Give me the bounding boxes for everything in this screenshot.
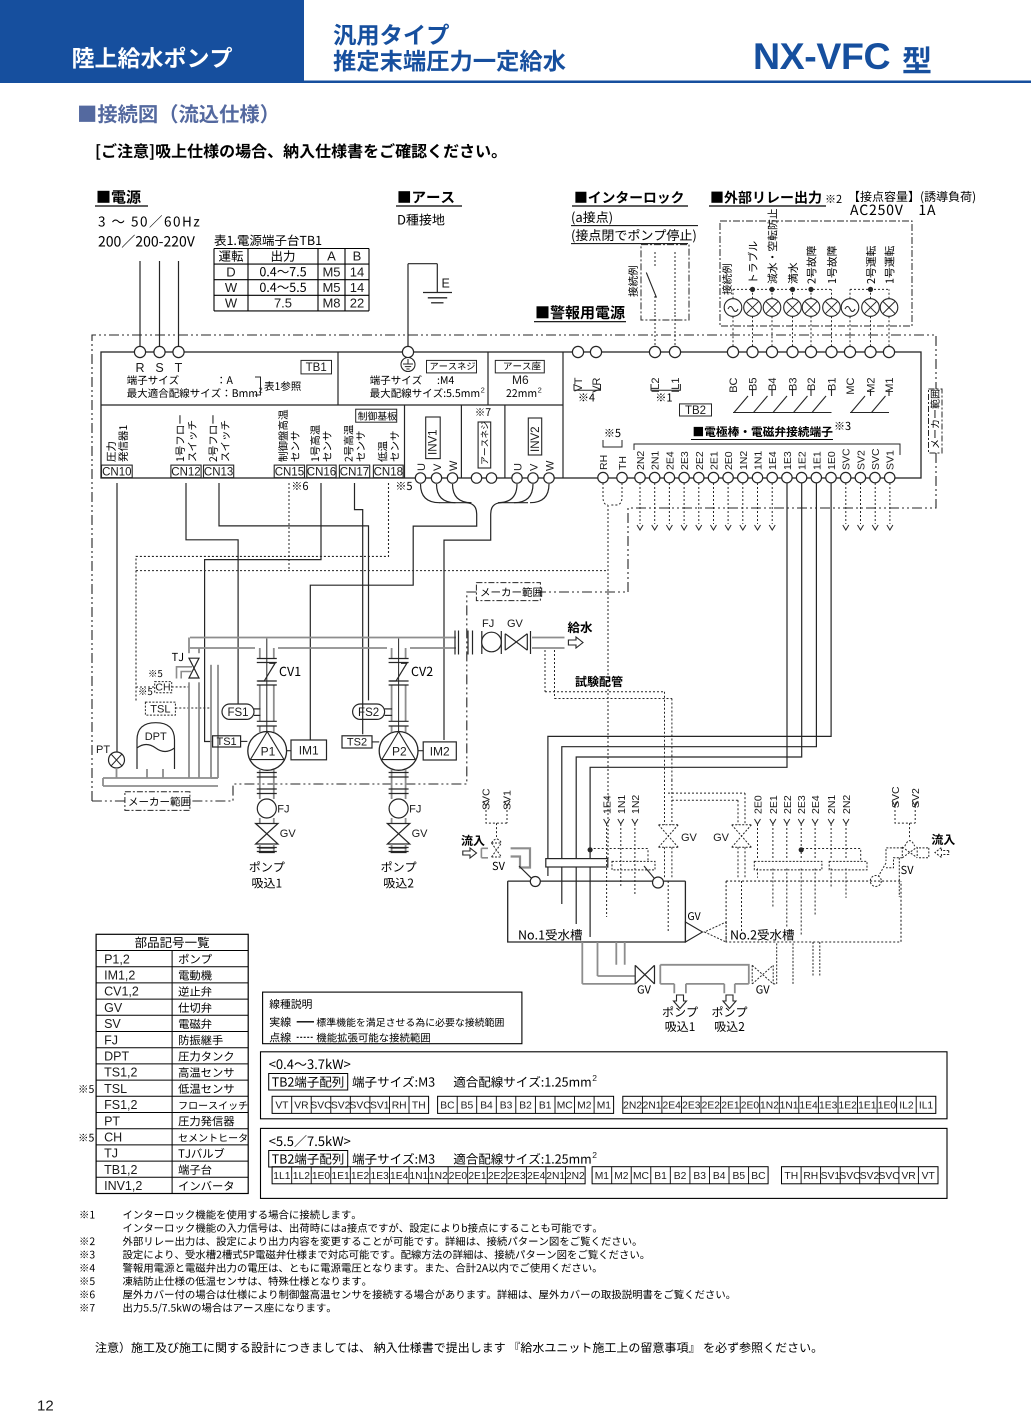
- svg-text:TSL: TSL: [104, 1082, 127, 1096]
- svg-text:M5: M5: [322, 264, 340, 279]
- header band: [0, 0, 304, 82]
- terminal 2E3: [679, 472, 689, 482]
- svg-text:2: 2: [592, 1073, 597, 1083]
- svg-text:NX-VFC: NX-VFC: [753, 35, 891, 77]
- svg-text:CN17: CN17: [340, 466, 369, 478]
- svg-text:T: T: [175, 361, 183, 375]
- svg-text:2N1: 2N1: [643, 1101, 662, 1112]
- svg-text:2E4: 2E4: [810, 795, 822, 814]
- terminal RH: [598, 472, 608, 482]
- flex joint FJ pump1: [257, 799, 276, 818]
- svg-text:1E4: 1E4: [767, 451, 779, 470]
- svg-text:B5: B5: [732, 1171, 745, 1182]
- TB1 tag: [301, 360, 332, 374]
- svg-text:SVC: SVC: [481, 788, 493, 810]
- gate valve GV test2 dotted: [732, 825, 752, 848]
- svg-text:M2: M2: [614, 1171, 629, 1182]
- connector CN13: [204, 465, 234, 478]
- svg-text:DPT: DPT: [104, 1050, 129, 1064]
- svg-text:D: D: [226, 264, 235, 279]
- suction manifold: [660, 965, 749, 984]
- svg-text:B3: B3: [500, 1101, 513, 1112]
- svg-text:M2: M2: [577, 1101, 592, 1112]
- sensor TS1: [213, 736, 241, 747]
- svg-text:CN18: CN18: [374, 466, 403, 478]
- TSL box: [145, 702, 175, 715]
- terminal SV1: [885, 472, 895, 482]
- svg-text:2E0: 2E0: [449, 1171, 468, 1182]
- svg-text:1N2: 1N2: [630, 795, 642, 814]
- wire CN16 to TS1: [205, 483, 321, 742]
- relay bus: [733, 288, 832, 290]
- inverter INV2: [528, 418, 541, 455]
- svg-text:TH: TH: [412, 1101, 426, 1112]
- terminal 1E0: [826, 472, 836, 482]
- relay lamp 2: [744, 299, 762, 317]
- maker-range label mid: [476, 583, 540, 601]
- relay lamp 5: [802, 299, 820, 317]
- svg-text:SVC: SVC: [839, 1171, 861, 1182]
- svg-text:GV: GV: [280, 828, 297, 840]
- svg-text:1E4: 1E4: [390, 1171, 409, 1182]
- svg-text:1E0: 1E0: [878, 1101, 897, 1112]
- label 2号高温センサ: [344, 425, 354, 461]
- TJ drain stub: [177, 667, 193, 679]
- svg-text:TSL: TSL: [150, 703, 170, 715]
- svg-text:B4: B4: [480, 1101, 493, 1112]
- svg-text:1E2: 1E2: [797, 451, 809, 470]
- terminal 2N2: [635, 472, 645, 482]
- footnotes: [80, 1211, 87, 1218]
- terminal 2N1: [650, 472, 660, 482]
- svg-text:1E4: 1E4: [799, 1101, 818, 1112]
- gate valve GV pump2: [387, 824, 409, 845]
- TB2 table 5.5-7.5kW: [261, 1128, 948, 1198]
- inflow arrow tank1: [461, 835, 472, 846]
- maker-range label right: [929, 389, 943, 453]
- control unit box: [101, 352, 921, 478]
- svg-text:DPT: DPT: [145, 731, 167, 743]
- terminal M2: [865, 346, 876, 357]
- relay lamp 4: [784, 299, 802, 317]
- solenoid valve SV tank1: [492, 843, 502, 857]
- svg-text:TJ: TJ: [104, 1147, 118, 1161]
- relay lamp 7: [841, 299, 859, 317]
- terminal 1N2: [738, 472, 748, 482]
- svg-text:M5: M5: [322, 280, 340, 295]
- svg-text:2E4: 2E4: [664, 451, 676, 470]
- relay lamp 8: [862, 299, 880, 317]
- svg-text:INV1: INV1: [428, 429, 440, 455]
- inverter INV1: [426, 417, 441, 459]
- svg-text:TS1,2: TS1,2: [104, 1066, 137, 1080]
- svg-text:TB2: TB2: [685, 405, 706, 417]
- svg-text:SV2: SV2: [860, 1171, 880, 1182]
- alarm power label: [537, 306, 549, 318]
- svg-text:VR: VR: [294, 1101, 308, 1112]
- earth screw glyph: [401, 358, 415, 372]
- svg-text:VT: VT: [922, 1171, 936, 1182]
- svg-text:R: R: [135, 361, 144, 375]
- svg-text:CH: CH: [155, 682, 170, 694]
- wire CN17 to TS2: [355, 483, 363, 734]
- gate valve GV discharge: [505, 634, 527, 651]
- svg-text:1E3: 1E3: [819, 1101, 838, 1112]
- svg-text:SV2: SV2: [855, 450, 867, 470]
- relay lamp 9: [880, 299, 898, 317]
- tank 2 dotted: [726, 881, 901, 942]
- svg-text:FS2: FS2: [358, 707, 379, 719]
- terminal B2: [805, 346, 816, 357]
- label 圧力発信器1: [106, 442, 116, 462]
- svg-text:1N1: 1N1: [409, 1171, 428, 1182]
- svg-text:TH: TH: [617, 456, 629, 470]
- note1 bracket: [651, 384, 680, 390]
- svg-text:2E2: 2E2: [694, 451, 706, 470]
- svg-text:14: 14: [350, 264, 364, 279]
- svg-text:2N1: 2N1: [546, 1171, 565, 1182]
- table TB1: [214, 248, 369, 250]
- svg-text:SVC: SVC: [879, 1171, 901, 1182]
- earth screw column: [476, 408, 484, 416]
- check valve CV2: [389, 658, 409, 660]
- relay lamp 1: [724, 299, 742, 317]
- svg-text:FJ: FJ: [277, 804, 289, 816]
- svg-text:1N2: 1N2: [429, 1171, 448, 1182]
- motor IM2: [423, 742, 456, 760]
- pump2 suction column: [391, 770, 393, 799]
- svg-text:B1: B1: [539, 1101, 552, 1112]
- svg-text:IM1,2: IM1,2: [104, 969, 135, 983]
- connector CN16: [307, 465, 336, 478]
- svg-text:SVC: SVC: [350, 1101, 372, 1112]
- svg-text:1E1: 1E1: [858, 1101, 877, 1112]
- terminal 1E1: [811, 472, 821, 482]
- svg-text:1N1: 1N1: [616, 795, 628, 814]
- riser pipe DPT column: [210, 665, 212, 778]
- svg-text:RH: RH: [392, 1101, 407, 1112]
- svg-text:1E1: 1E1: [331, 1171, 350, 1182]
- svg-text:SV: SV: [104, 1017, 121, 1031]
- connector CN17: [339, 465, 369, 478]
- svg-text:2E0: 2E0: [741, 1101, 760, 1112]
- svg-text:B4: B4: [713, 1171, 726, 1182]
- electrode rods tank1: [547, 867, 549, 876]
- svg-text:1E2: 1E2: [351, 1171, 370, 1182]
- svg-text:V: V: [529, 463, 541, 471]
- svg-text:CH: CH: [104, 1131, 122, 1145]
- flow switch FS2: [353, 704, 385, 719]
- check valve CV1: [257, 658, 277, 660]
- pump1 suction column: [259, 770, 261, 799]
- connector CN18: [373, 465, 403, 478]
- svg-text:V: V: [432, 463, 444, 471]
- terminal IL2: [649, 346, 660, 357]
- earth screw terminal: [402, 346, 413, 357]
- inlet pipe tank1: [481, 848, 488, 858]
- wire CN10 to PT: [116, 483, 118, 752]
- ref bracket: [255, 377, 261, 395]
- svg-text:FJ: FJ: [104, 1033, 118, 1047]
- relay lamp 3: [763, 299, 781, 317]
- terminal VR: [590, 346, 601, 357]
- svg-text:GV: GV: [104, 1001, 123, 1015]
- svg-text:2E4: 2E4: [663, 1101, 682, 1112]
- svg-text:P1,2: P1,2: [104, 952, 130, 966]
- svg-text:MC: MC: [845, 377, 857, 394]
- terminal IL1: [669, 346, 680, 357]
- bottom manifold pipe: [103, 778, 218, 786]
- svg-text:2E1: 2E1: [468, 1171, 487, 1182]
- header title left: [73, 47, 232, 69]
- discharge flange pairs: [454, 631, 456, 655]
- kyusui arrow: [568, 637, 583, 648]
- svg-text:1E4: 1E4: [602, 795, 614, 814]
- riser pipe TJ column: [188, 682, 190, 778]
- svg-text:M1: M1: [884, 378, 896, 393]
- svg-text:1L1: 1L1: [273, 1171, 290, 1182]
- terminal SVC: [841, 472, 851, 482]
- gate valve GV pump1: [256, 824, 278, 845]
- svg-text:INV1,2: INV1,2: [104, 1179, 142, 1193]
- power label: [98, 191, 110, 203]
- TJ valve: [189, 658, 199, 678]
- interlock example box: [641, 245, 689, 320]
- svg-text:1E3: 1E3: [782, 451, 794, 470]
- tank connect valve GV: [685, 922, 702, 942]
- svg-text:BC: BC: [751, 1171, 766, 1182]
- svg-text:SV1: SV1: [885, 450, 897, 470]
- table TB1 title: [214, 235, 226, 247]
- earth label: [398, 191, 410, 203]
- terminal 1N1: [752, 472, 762, 482]
- svg-text:W: W: [225, 280, 238, 295]
- wire CN13 to FS2: [219, 483, 369, 700]
- label 1号フロースイッチ: [176, 415, 185, 461]
- notice line: [95, 1342, 106, 1353]
- svg-text:2E2: 2E2: [488, 1171, 507, 1182]
- inlet pipe tank2 dotted: [919, 848, 929, 858]
- svg-text:FS1,2: FS1,2: [104, 1098, 137, 1112]
- relay contacts M group: [850, 412, 889, 414]
- CH box: [155, 682, 172, 693]
- svg-text:1N1: 1N1: [753, 451, 765, 470]
- label 2号フロースイッチ: [209, 415, 218, 461]
- svg-text:B: B: [353, 249, 362, 264]
- svg-text:B3: B3: [693, 1171, 706, 1182]
- svg-text:CN12: CN12: [171, 466, 200, 478]
- svg-text:1N2: 1N2: [760, 1101, 779, 1112]
- terminal V: [431, 473, 441, 483]
- flow switch FS1: [222, 704, 254, 719]
- gate valve GV test1: [659, 825, 679, 848]
- svg-text:P2: P2: [392, 745, 407, 759]
- svg-text:1E1: 1E1: [811, 451, 823, 470]
- terminal BC: [727, 346, 738, 357]
- svg-text:IL2: IL2: [899, 1101, 914, 1112]
- svg-text:2E0: 2E0: [723, 451, 735, 470]
- terminal U: [415, 473, 425, 483]
- dotted electrode stubs with arrows: [639, 483, 641, 524]
- svg-text:1N2: 1N2: [738, 451, 750, 470]
- svg-text:VT: VT: [275, 1101, 289, 1112]
- svg-text:2E3: 2E3: [682, 1101, 701, 1112]
- pump2 column pipe: [391, 648, 393, 659]
- svg-text:W: W: [448, 460, 460, 471]
- svg-text:M8: M8: [322, 296, 340, 311]
- terminal B1: [826, 346, 837, 357]
- svg-text:B2: B2: [519, 1101, 532, 1112]
- svg-text:B1: B1: [827, 378, 839, 391]
- svg-text:2: 2: [592, 1150, 597, 1160]
- svg-text:TB1: TB1: [306, 362, 327, 374]
- pump P2: [379, 732, 418, 771]
- svg-text:2N2: 2N2: [841, 795, 853, 814]
- suction arrows: [674, 995, 687, 1009]
- note4 bracket: [574, 384, 601, 390]
- terminal M1: [883, 346, 894, 357]
- svg-text:VT: VT: [573, 377, 585, 391]
- label 1号高温センサ: [310, 425, 320, 461]
- svg-text:TH: TH: [784, 1171, 798, 1182]
- svg-text:2N2: 2N2: [635, 451, 647, 470]
- terminal TH: [617, 472, 627, 482]
- svg-text:FS1: FS1: [227, 707, 248, 719]
- svg-text:SVC: SVC: [870, 448, 882, 470]
- connector CN10: [102, 465, 133, 478]
- electrode plate tank2 dotted: [754, 861, 822, 870]
- svg-text:2: 2: [538, 386, 542, 395]
- svg-text:PT: PT: [104, 1114, 120, 1128]
- svg-text:E: E: [442, 277, 450, 291]
- relay lamp 6: [823, 299, 841, 317]
- terminal 1E2: [796, 472, 806, 482]
- svg-text:22: 22: [350, 296, 364, 311]
- svg-text:M2: M2: [866, 378, 878, 393]
- svg-text:FJ: FJ: [482, 618, 494, 630]
- float switch tank1 ball: [644, 866, 654, 878]
- svg-text:BC: BC: [728, 377, 740, 392]
- svg-text:B5: B5: [748, 378, 760, 391]
- svg-text:1N1: 1N1: [780, 1101, 799, 1112]
- relay output label: [711, 192, 722, 203]
- svg-text:GV: GV: [412, 828, 429, 840]
- terminals R S T: [134, 346, 145, 357]
- pump1 column pipe: [259, 648, 261, 659]
- terminal B3: [787, 346, 798, 357]
- svg-text:S: S: [155, 361, 163, 375]
- terminal 1E4: [767, 472, 777, 482]
- earth screw tag: [427, 360, 477, 373]
- svg-text:INV2: INV2: [530, 426, 542, 452]
- svg-text:CN16: CN16: [307, 466, 336, 478]
- TB2 table 0.4-3.7kW: [261, 1052, 948, 1119]
- flex joint FJ pump2: [389, 799, 408, 818]
- svg-text:2E4: 2E4: [527, 1171, 546, 1182]
- PT transmitter: [109, 752, 125, 768]
- electrode labels tank2: [802, 849, 861, 862]
- svg-text:BC: BC: [440, 1101, 455, 1112]
- svg-text:1E0: 1E0: [826, 451, 838, 470]
- svg-text:RH: RH: [803, 1171, 818, 1182]
- wires UVW INV2 to IM2: [498, 484, 517, 503]
- electrode plate tank1 dotted: [612, 861, 655, 870]
- svg-text:2N1: 2N1: [826, 795, 838, 814]
- svg-text:MC: MC: [633, 1171, 650, 1182]
- wire CN15 stub: [136, 483, 608, 571]
- svg-text:A: A: [327, 249, 336, 264]
- svg-text:U: U: [513, 463, 525, 471]
- svg-text:CN10: CN10: [102, 466, 131, 478]
- terminal VT: [572, 346, 583, 357]
- svg-text:2E1: 2E1: [768, 795, 780, 814]
- terminal MC: [844, 346, 855, 357]
- svg-text:M6: M6: [512, 373, 529, 387]
- svg-text:PT: PT: [96, 744, 110, 756]
- svg-text:FJ: FJ: [409, 804, 421, 816]
- svg-text:CN15: CN15: [275, 466, 304, 478]
- pump P1: [248, 732, 287, 771]
- terminal 1E3: [782, 472, 792, 482]
- maker-range label left: [125, 792, 190, 811]
- svg-text:IM1: IM1: [299, 744, 319, 758]
- motor IM1: [291, 740, 327, 760]
- wires UVW INV1 to IM1: [421, 484, 440, 503]
- svg-text:2N1: 2N1: [650, 451, 662, 470]
- section title: [79, 104, 267, 123]
- terminal B5: [747, 346, 758, 357]
- control board tag: [356, 409, 397, 422]
- interlock contact: [654, 252, 656, 268]
- svg-text:GV: GV: [507, 618, 524, 630]
- electrode plate tank1: [546, 859, 608, 867]
- terminal 2E1: [708, 472, 718, 482]
- terminal V: [528, 473, 538, 483]
- svg-text:12: 12: [37, 1398, 54, 1415]
- svg-text:14: 14: [350, 280, 364, 295]
- svg-text:SV1: SV1: [821, 1171, 841, 1182]
- svg-text:TS1: TS1: [217, 736, 237, 748]
- terminal B4: [766, 346, 777, 357]
- svg-text:VR: VR: [901, 1171, 915, 1182]
- svg-text:GV: GV: [681, 832, 698, 844]
- DPT tank: [137, 723, 175, 769]
- suction GV left: [635, 965, 654, 984]
- svg-text:TB1,2: TB1,2: [104, 1163, 137, 1177]
- connector CN15: [274, 465, 304, 478]
- svg-text:2E0: 2E0: [753, 795, 765, 814]
- svg-text:B3: B3: [788, 378, 800, 391]
- RH TH dotted wires: [603, 483, 608, 505]
- test pipe dotted: [545, 650, 555, 699]
- parts table: [96, 934, 248, 1193]
- svg-text:B2: B2: [806, 378, 818, 391]
- suction GV right dotted: [752, 965, 773, 984]
- svg-text:SVC: SVC: [310, 1101, 332, 1112]
- svg-text:B5: B5: [461, 1101, 474, 1112]
- wire CN12 to FS1: [186, 483, 238, 704]
- svg-text:2E3: 2E3: [679, 451, 691, 470]
- wire CN18 to TSL dotted: [136, 483, 389, 702]
- svg-text:B2: B2: [674, 1171, 687, 1182]
- svg-text:1E0: 1E0: [312, 1171, 331, 1182]
- svg-text:U: U: [416, 463, 428, 471]
- svg-text:1L2: 1L2: [293, 1171, 310, 1182]
- svg-text:TS2: TS2: [347, 737, 367, 749]
- header title middle: [334, 24, 449, 46]
- svg-text:2E2: 2E2: [782, 795, 794, 814]
- earth symbol E: [408, 263, 437, 265]
